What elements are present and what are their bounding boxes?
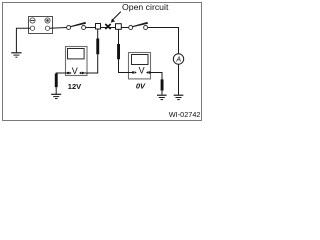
wire battery to switch SW1 xyxy=(50,27,67,30)
voltmeter V1 body xyxy=(66,47,88,76)
wire J2 to switch SW2 xyxy=(121,27,129,29)
battery bottom-left post xyxy=(30,26,34,30)
voltmeter V2 terminals xyxy=(132,71,134,73)
voltmeter V2 body xyxy=(129,53,151,79)
connector J2 xyxy=(116,24,122,30)
V1 positive lead wire xyxy=(83,54,98,73)
V2 positive probe xyxy=(117,44,120,59)
V2 negative probe xyxy=(161,79,164,90)
svg-text:A: A xyxy=(175,57,181,64)
svg-text:V: V xyxy=(72,66,78,76)
connector J1 xyxy=(96,24,101,30)
leader arrow to open circuit xyxy=(113,12,121,20)
battery negative terminal xyxy=(30,18,35,23)
svg-text:0V: 0V xyxy=(136,82,146,91)
voltmeter V1 display xyxy=(68,49,85,59)
V1 positive probe xyxy=(96,39,99,55)
ground G2 xyxy=(51,94,61,98)
wire battery left to ground xyxy=(16,28,30,52)
ground G4 xyxy=(174,95,184,99)
V2 negative lead wire xyxy=(150,73,163,80)
V1 negative probe xyxy=(55,74,58,88)
switch SW1 lever xyxy=(70,22,86,27)
ground G1 xyxy=(11,53,21,57)
voltmeter V1 terminals xyxy=(67,72,69,74)
ground G3 xyxy=(157,95,167,99)
switch SW1 xyxy=(67,26,86,30)
ammeter A1 xyxy=(173,54,183,64)
wire ammeter to ground xyxy=(178,64,180,95)
svg-text:12V: 12V xyxy=(68,82,81,91)
svg-text:WI-02742: WI-02742 xyxy=(169,110,201,119)
wire SW2 to ammeter xyxy=(148,28,179,54)
open circuit X xyxy=(105,24,110,29)
voltmeter V2 display xyxy=(132,55,149,65)
battery positive terminal xyxy=(45,18,50,23)
switch SW2 lever xyxy=(132,22,148,27)
wire J1 to J2 xyxy=(101,27,116,29)
wire SW1 to connector J1 xyxy=(86,27,96,29)
V2 positive lead wire xyxy=(119,59,134,72)
battery B1 box xyxy=(29,17,53,34)
battery bottom-right post xyxy=(45,26,49,30)
svg-text:V: V xyxy=(139,65,145,75)
svg-text:Open circuit: Open circuit xyxy=(122,2,169,12)
switch SW2 xyxy=(129,26,148,30)
V1 negative lead wire xyxy=(56,73,68,74)
